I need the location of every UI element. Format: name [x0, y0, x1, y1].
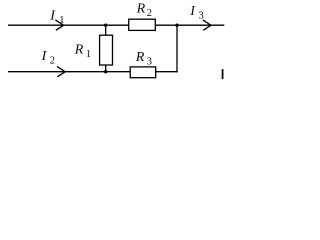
node B junction dot	[104, 70, 107, 73]
node C junction dot	[175, 24, 178, 27]
wire from node A down to R1	[105, 25, 107, 35]
svg-text:1: 1	[59, 15, 64, 26]
resistor R2	[129, 19, 156, 30]
label I1	[49, 8, 64, 26]
svg-text:R: R	[135, 50, 145, 65]
svg-text:2: 2	[147, 8, 152, 19]
svg-text:1: 1	[86, 49, 91, 60]
text cursor mark	[222, 69, 224, 79]
resistor R1	[100, 35, 113, 65]
wire R3 to riser corner	[156, 71, 178, 73]
wire bottom-left segment	[8, 71, 130, 73]
label I2	[41, 49, 55, 67]
svg-text:3: 3	[147, 57, 152, 68]
current arrow I3	[203, 20, 211, 30]
label I3	[189, 4, 203, 22]
label R1	[74, 42, 91, 60]
wire R2 to node C	[155, 24, 177, 26]
wire from R1 down to node B	[105, 65, 107, 72]
resistor R3	[130, 67, 156, 78]
label R3	[135, 50, 152, 68]
current arrow I1	[55, 20, 63, 30]
svg-text:I: I	[49, 8, 56, 23]
wire top-right output segment	[177, 24, 224, 26]
label R2	[136, 2, 152, 20]
svg-text:R: R	[136, 2, 146, 17]
node A junction dot	[104, 24, 107, 27]
wire top-left segment	[8, 24, 129, 26]
wire riser up to node C	[176, 25, 178, 72]
svg-text:I: I	[189, 4, 196, 19]
current arrow I2	[57, 66, 65, 76]
svg-text:R: R	[74, 42, 84, 57]
svg-text:3: 3	[199, 11, 204, 22]
svg-text:I: I	[41, 49, 48, 64]
svg-text:2: 2	[50, 56, 55, 67]
